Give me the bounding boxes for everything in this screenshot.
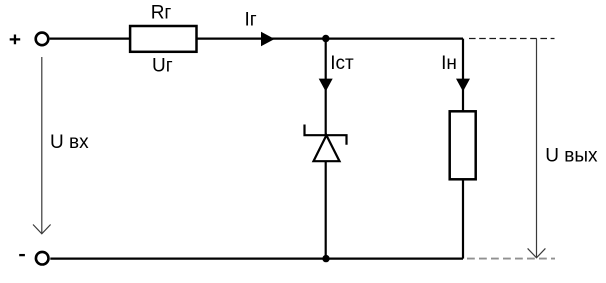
wire top: terminal to resistor	[50, 37, 130, 39]
wire: node A to load branch corner and down	[462, 39, 464, 112]
resistor Rг	[130, 26, 196, 52]
U вх arrowhead	[33, 225, 51, 234]
U вых arrowhead	[528, 248, 546, 257]
wire: node A down to zener	[325, 39, 327, 136]
svg-text:Uг: Uг	[152, 55, 173, 76]
dashed line bottom right	[467, 258, 555, 260]
U вх measurement line	[41, 57, 43, 234]
current arrow Iн	[456, 79, 470, 92]
wire: load resistor to bottom wire	[462, 179, 464, 258]
dashed line top right	[469, 38, 555, 40]
load resistor Rн	[450, 111, 476, 179]
terminal circle top-left	[36, 33, 49, 46]
current arrow Iст	[319, 79, 333, 92]
current arrow Iг	[261, 32, 275, 46]
wire bottom	[50, 258, 463, 260]
svg-text:U вых: U вых	[545, 146, 598, 167]
wire: zener to bottom node	[325, 161, 327, 258]
svg-text:Iст: Iст	[330, 53, 354, 74]
svg-text:Iн: Iн	[441, 53, 457, 74]
svg-text:Iг: Iг	[245, 10, 257, 31]
node B junction dot bottom	[322, 255, 329, 262]
plus terminal label +	[10, 35, 21, 45]
node A junction dot top	[322, 35, 329, 42]
minus terminal label -	[19, 254, 25, 256]
U вых measurement line	[536, 39, 538, 258]
zener diode VD cathode bar	[305, 125, 347, 145]
svg-text:U вх: U вх	[50, 132, 89, 153]
terminal circle bottom-left	[36, 252, 49, 265]
zener diode VD triangle	[314, 135, 340, 161]
svg-text:Rг: Rг	[151, 3, 172, 24]
wire top: resistor to node A	[197, 37, 464, 39]
